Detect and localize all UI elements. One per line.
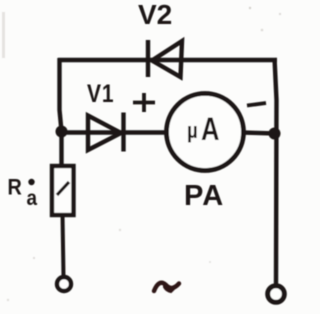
- label Ra: [8, 176, 38, 211]
- wire meter right to junction: [242, 133, 276, 134]
- label uA mu: [187, 120, 198, 144]
- svg-text:A: A: [201, 112, 220, 147]
- node junction right: [269, 128, 281, 140]
- svg-text:V2: V2: [138, 0, 172, 30]
- wire left vertical upper: [60, 58, 62, 164]
- label V1: [87, 79, 114, 107]
- meter PA circle: [167, 94, 244, 171]
- source tilde: [154, 283, 179, 291]
- minus sign: [247, 103, 266, 106]
- wire resistor bottom to left terminal: [63, 214, 64, 277]
- terminal right: [268, 286, 285, 303]
- diode V1: [88, 113, 124, 152]
- svg-text:R: R: [8, 176, 22, 200]
- diode V2: [148, 40, 182, 77]
- label uA A: [201, 112, 220, 147]
- resistor Ra: [52, 166, 74, 215]
- wire right vertical: [275, 58, 277, 284]
- svg-text:a: a: [27, 187, 38, 210]
- wire V1 branch horizontal: [60, 130, 168, 134]
- plus sign: [133, 93, 155, 112]
- svg-text:µ: µ: [187, 120, 198, 144]
- svg-text:PA: PA: [184, 180, 224, 212]
- terminal left: [57, 277, 71, 291]
- node junction left: [56, 126, 68, 138]
- svg-text:V1: V1: [87, 79, 114, 107]
- wire top horizontal: [58, 58, 277, 62]
